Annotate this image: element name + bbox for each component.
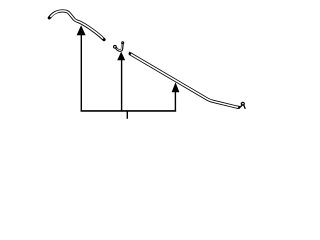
long rod hook connector <box>239 106 242 108</box>
long rod tip curl <box>128 52 131 54</box>
long rod (white core) <box>131 54 238 107</box>
small clip: ball head <box>121 41 124 44</box>
middle arrow shaft <box>121 60 123 112</box>
small clip: body strand <box>116 43 122 50</box>
middle arrow head <box>117 52 125 61</box>
right arrow shaft <box>174 92 176 112</box>
long rod end tail <box>244 106 245 109</box>
left arrow shaft <box>80 35 82 112</box>
bottom callout tick <box>126 111 128 119</box>
top-left bent rod (white core) <box>50 11 103 39</box>
long rod end loop <box>241 102 245 106</box>
top-left bent rod (part outline, black) <box>49 11 104 40</box>
small clip: eye loop at left end <box>114 45 117 48</box>
long rod (black outline) <box>130 54 239 108</box>
left arrow head <box>77 25 86 35</box>
right arrow head <box>172 82 180 92</box>
bottom bracket line <box>81 110 177 112</box>
